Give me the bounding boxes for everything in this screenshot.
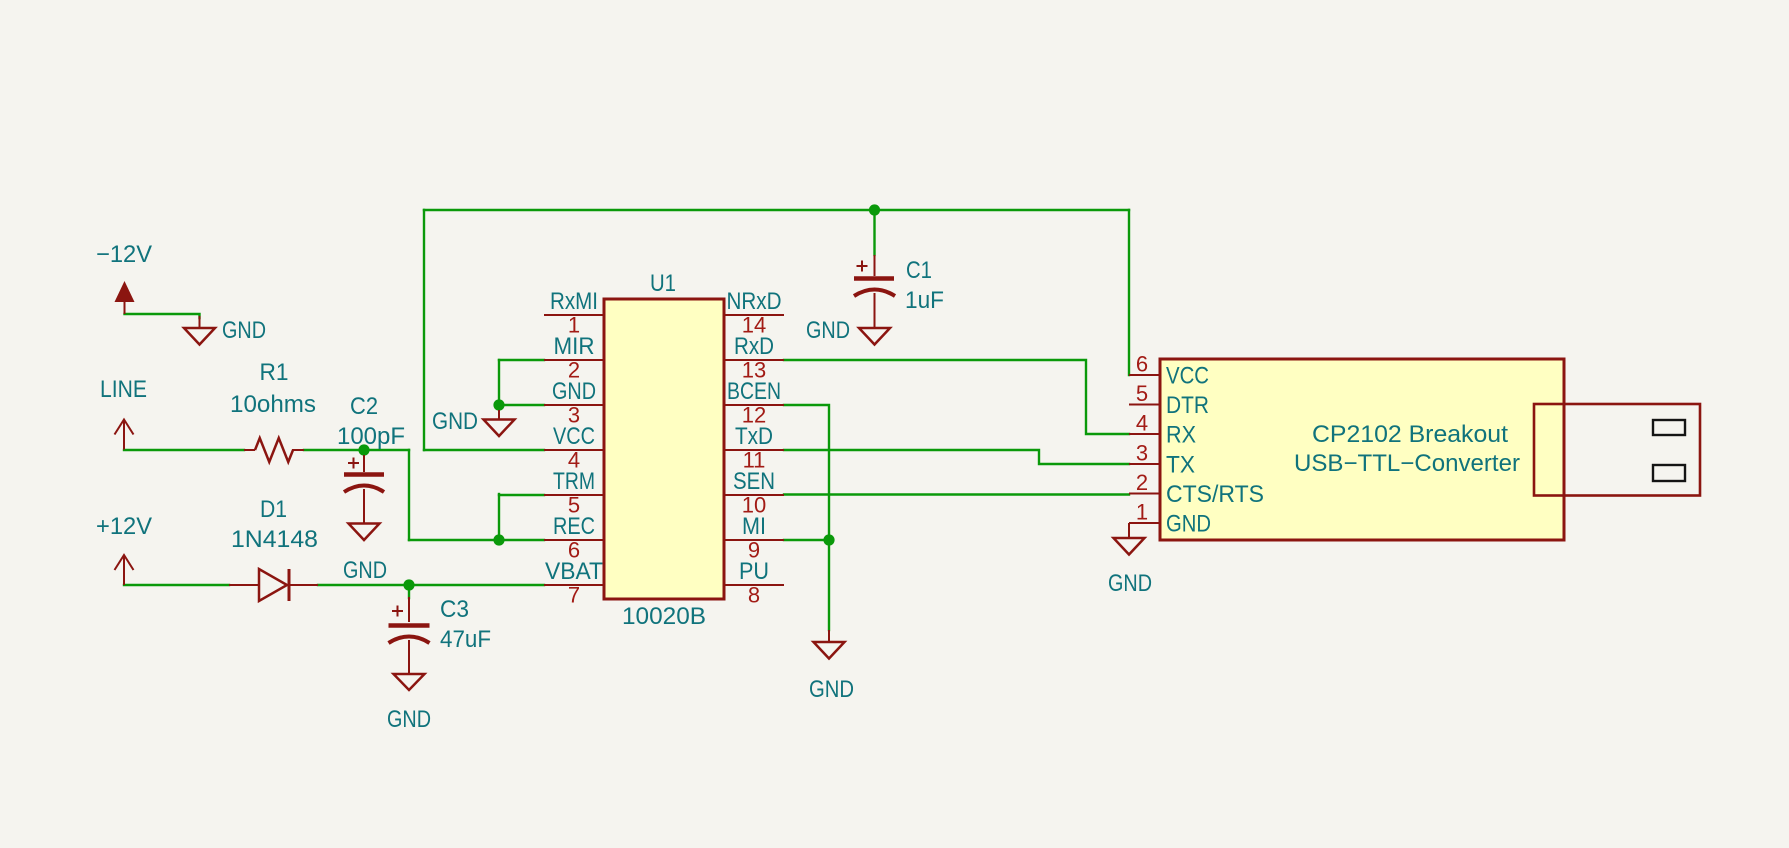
U1 pin 14 NRxD (724, 288, 784, 338)
svg-text:DTR: DTR (1166, 392, 1209, 419)
U1 pin 11 TxD (724, 423, 784, 473)
junction node TRM/REC (493, 534, 504, 545)
USB pad 2 (1653, 465, 1685, 481)
svg-text:6: 6 (1136, 352, 1148, 377)
svg-text:LINE: LINE (100, 376, 147, 403)
U1 pin 6 REC (544, 513, 604, 563)
U1 pin 2 MIR (544, 333, 604, 383)
svg-text:TX: TX (1166, 452, 1195, 479)
wire C2 node down (408, 450, 410, 540)
svg-text:R1: R1 (260, 359, 289, 386)
wire VCC vertical left (423, 210, 425, 450)
ground at U1 pin3 node (432, 408, 515, 436)
svg-text:VCC: VCC (553, 423, 595, 450)
junction node C1/VCC bus (869, 204, 880, 215)
USB pad 1 (1653, 420, 1685, 435)
module CP2102 Breakout (1160, 359, 1564, 540)
svg-text:VBAT: VBAT (545, 558, 603, 585)
svg-text:TxD: TxD (735, 423, 773, 450)
svg-text:GND: GND (806, 317, 850, 344)
CP2102 pin 2 CTS/RTS (1129, 470, 1264, 508)
U1 pin 13 RxD (724, 333, 784, 383)
svg-text:1uF: 1uF (905, 287, 944, 314)
svg-text:U1: U1 (650, 270, 676, 297)
resistor R1 (230, 359, 316, 462)
wire TxD U1 pin11 to CP2102 TX (784, 450, 1129, 464)
U1 pin 5 TRM (544, 468, 604, 518)
ground GND top-left (184, 316, 266, 345)
svg-text:CP2102 Breakout: CP2102 Breakout (1312, 421, 1508, 448)
svg-text:GND: GND (809, 676, 854, 703)
svg-text:BCEN: BCEN (727, 378, 781, 405)
capacitor C3 (389, 585, 492, 674)
svg-text:8: 8 (748, 583, 760, 608)
wire SEN U1 pin10 to CP2102 CTS/RTS (784, 493, 1129, 495)
svg-text:100pF: 100pF (337, 423, 405, 450)
svg-text:GND: GND (222, 317, 266, 344)
ground at BCEN/MI net (809, 630, 854, 703)
IC U1 10020B (604, 270, 724, 630)
svg-text:3: 3 (1136, 441, 1148, 466)
capacitor C1 (854, 255, 944, 328)
power symbol LINE (100, 376, 147, 450)
CP2102 pin 1 GND (1129, 500, 1211, 538)
wire GND to U1 pin3 (499, 404, 544, 406)
svg-text:REC: REC (553, 513, 595, 540)
wire LINE to R1 (124, 449, 244, 451)
svg-text:VCC: VCC (1166, 363, 1209, 390)
wire D1 to U1 pin7 VBAT (318, 584, 544, 586)
wire top bus VCC horizontal (424, 209, 1129, 211)
svg-text:10020B: 10020B (622, 603, 706, 630)
ground for C3 (387, 674, 431, 733)
svg-text:C2: C2 (350, 393, 378, 420)
wire TRM to U1 pin5 (499, 494, 544, 496)
svg-text:NRxD: NRxD (727, 288, 782, 315)
CP2102 pin 5 DTR (1129, 381, 1209, 419)
svg-text:MIR: MIR (554, 333, 595, 360)
wire to U1 pin6 REC (409, 539, 544, 541)
U1 pin 12 BCEN (724, 378, 784, 428)
wire TRM vertical (498, 494, 500, 540)
wire RxD U1 pin13 to CP2102 RX (784, 360, 1129, 434)
svg-text:1N4148: 1N4148 (231, 526, 318, 553)
wire +12V to D1 (124, 584, 229, 586)
svg-text:10ohms: 10ohms (230, 391, 316, 418)
CP2102 pin 6 VCC (1129, 352, 1209, 390)
wire MIR vertical down (498, 360, 500, 405)
CP2102 pin 3 TX (1129, 441, 1195, 479)
wire MIR to U1 pin2 (499, 359, 544, 361)
wire C1 stem (873, 210, 875, 255)
svg-text:7: 7 (568, 583, 580, 608)
svg-text:GND: GND (432, 408, 478, 435)
diode D1 (229, 496, 318, 601)
U1 pin 9 MI (724, 513, 784, 563)
CP2102 pin 4 RX (1129, 411, 1196, 449)
svg-text:+12V: +12V (96, 513, 152, 540)
svg-text:USB−TTL−Converter: USB−TTL−Converter (1294, 450, 1520, 477)
svg-text:GND: GND (1166, 511, 1211, 538)
ground for C2 (343, 524, 387, 585)
power symbol -12V (96, 241, 152, 314)
svg-text:PU: PU (739, 558, 769, 585)
wire VCC vertical right to CP2102 pin6 (1128, 210, 1130, 375)
svg-text:2: 2 (1136, 470, 1148, 495)
junction node MIR/GND (493, 399, 504, 410)
wire R1 to C2 node (304, 449, 409, 451)
U1 pin 7 VBAT (544, 558, 604, 608)
svg-text:RxMI: RxMI (550, 288, 598, 315)
svg-text:4: 4 (1136, 411, 1148, 436)
junction node C2/R1 (358, 444, 369, 455)
svg-text:GND: GND (1108, 570, 1152, 597)
svg-text:TRM: TRM (553, 468, 595, 495)
svg-text:SEN: SEN (733, 468, 775, 495)
svg-text:D1: D1 (260, 496, 287, 523)
svg-text:GND: GND (343, 557, 387, 584)
svg-text:RX: RX (1166, 422, 1196, 449)
svg-text:CTS/RTS: CTS/RTS (1166, 481, 1264, 508)
svg-text:C3: C3 (440, 596, 469, 623)
junction node C3/VBAT (403, 579, 414, 590)
U1 pin 1 RxMI (544, 288, 604, 338)
svg-text:1: 1 (1136, 500, 1148, 525)
svg-text:C1: C1 (906, 257, 932, 284)
USB plug connector (1534, 404, 1700, 496)
ground at CP2102 pin1 (1108, 523, 1152, 597)
svg-text:47uF: 47uF (440, 626, 491, 653)
U1 pin 10 SEN (724, 468, 784, 518)
svg-text:−12V: −12V (96, 241, 152, 268)
power symbol +12V (96, 513, 152, 585)
wire -12V horizontal (125, 314, 200, 318)
U1 pin 8 PU (724, 558, 784, 608)
wire VCC to U1 pin4 (424, 449, 544, 451)
capacitor C2 (337, 393, 405, 524)
U1 pin 4 VCC (544, 423, 604, 473)
svg-text:RxD: RxD (734, 333, 774, 360)
ground for C1 (806, 317, 890, 345)
svg-text:5: 5 (1136, 381, 1148, 406)
wire MI from U1 pin9 (784, 539, 829, 541)
svg-text:MI: MI (742, 513, 766, 540)
junction node BCEN/MI (823, 534, 834, 545)
svg-text:GND: GND (387, 706, 431, 733)
U1 pin 3 GND (544, 378, 604, 428)
svg-text:GND: GND (552, 378, 596, 405)
wire BCEN from U1 pin12 (784, 405, 829, 630)
